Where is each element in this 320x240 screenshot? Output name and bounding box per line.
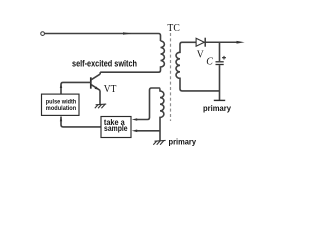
arrow: output (pointing right) xyxy=(237,41,245,44)
label + (capacitor polarity) xyxy=(222,56,226,60)
arrow: into pwm bottom (pointing up) xyxy=(60,117,62,122)
wire: feedback winding bottom tap to take-a-sample xyxy=(137,130,160,132)
wire: input rail to primary top xyxy=(44,34,160,42)
svg-text:TC: TC xyxy=(167,23,180,34)
svg-text:sample: sample xyxy=(104,124,128,133)
wire: take-a-sample to pwm xyxy=(61,117,101,127)
input terminal xyxy=(41,32,45,36)
transformer TC primary winding xyxy=(100,41,164,72)
arrow: pwm output to base (pointing up) xyxy=(60,83,62,88)
svg-text:V: V xyxy=(197,49,205,60)
transistor VT xyxy=(91,74,100,90)
transformer TC feedback winding xyxy=(160,88,164,141)
arrow: into take-a-sample bottom input (pointing left) xyxy=(132,130,137,133)
wire: capacitor bottom to ground xyxy=(219,65,221,100)
svg-text:primary: primary xyxy=(169,138,197,147)
arrow on input rail xyxy=(123,32,132,35)
wire: secondary top to diode anode xyxy=(182,41,196,43)
svg-text:VT: VT xyxy=(104,84,117,95)
svg-text:C: C xyxy=(206,57,213,68)
ground (emitter) xyxy=(95,104,106,108)
diode V xyxy=(196,38,205,47)
capacitor C xyxy=(216,62,224,65)
wire: emitter to ground xyxy=(99,90,101,104)
wire: feedback winding top to take-a-sample xyxy=(137,88,160,120)
svg-text:modulation: modulation xyxy=(46,105,76,112)
ground (feedback winding) xyxy=(153,140,165,144)
svg-text:self-excited switch: self-excited switch xyxy=(72,58,137,69)
arrow: into take-a-sample top input (pointing left) xyxy=(132,118,137,121)
wire: diode cathode to output xyxy=(205,41,237,43)
block: take a sample xyxy=(101,117,131,138)
ground (secondary side bar) xyxy=(214,99,225,101)
wire: collector riser xyxy=(99,72,101,74)
transformer TC core (dashed) xyxy=(170,33,172,121)
block: pulse width modulation xyxy=(42,94,80,115)
transformer TC secondary winding xyxy=(176,42,220,91)
wire: base xyxy=(61,82,91,94)
svg-text:primary: primary xyxy=(203,104,231,113)
wire: output node down to capacitor xyxy=(219,42,221,61)
